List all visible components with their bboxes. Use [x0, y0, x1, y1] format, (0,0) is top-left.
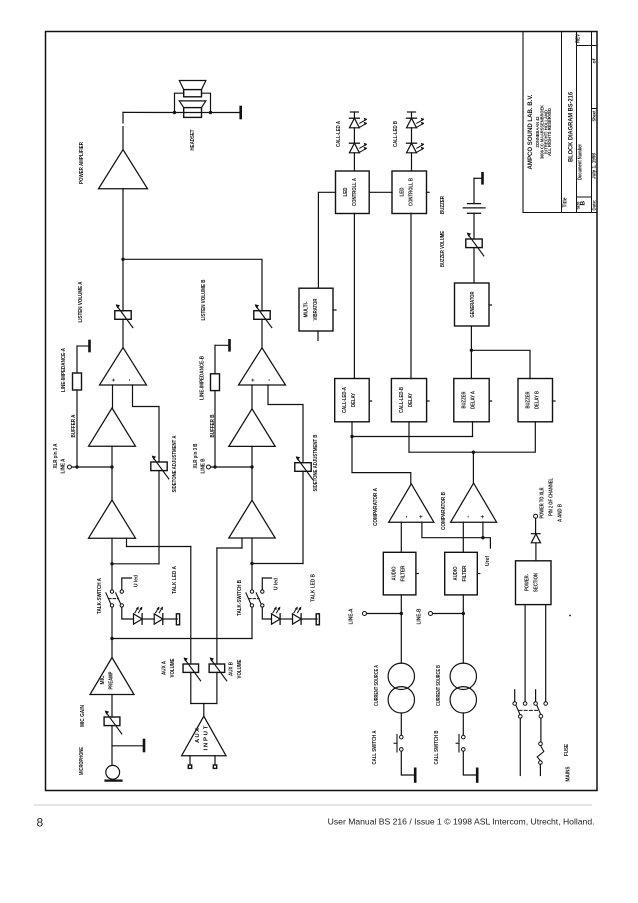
- block CALL-LED-B DELAY: [391, 379, 426, 422]
- svg-text:MIC GAIN: MIC GAIN: [80, 705, 86, 727]
- wire headset parallel bracket: [175, 93, 184, 112]
- svg-text:MICROPHONE: MICROPHONE: [79, 747, 85, 775]
- svg-text:FILTER: FILTER: [462, 565, 468, 581]
- block AUDIO FILTER A: [383, 552, 416, 595]
- wire power section to mains switch: [524, 605, 526, 702]
- wire U led stub A: [122, 578, 132, 590]
- switch MAINS double pole: [514, 690, 516, 702]
- svg-text:BUFFER A: BUFFER A: [71, 414, 77, 437]
- wire audio filter A to line A bus: [400, 595, 402, 614]
- svg-text:REV: REV: [576, 33, 582, 43]
- wire mic bus A to B: [111, 607, 113, 638]
- wire sidetone B to mic node B: [302, 471, 304, 563]
- svg-text:MULTI-: MULTI-: [304, 301, 310, 317]
- footer separator: [34, 804, 593, 806]
- wire talk amp B aux input tap: [241, 538, 243, 548]
- svg-text:BUFFER B: BUFFER B: [210, 414, 216, 437]
- block LED CONTROLL B: [392, 171, 427, 214]
- svg-text:8: 8: [37, 816, 44, 830]
- svg-text:VIBRATOR: VIBRATOR: [313, 298, 319, 320]
- ground headset return bar: [239, 107, 242, 118]
- wire diff amp A - input to sidetone A: [133, 385, 160, 462]
- svg-text:BUZZER: BUZZER: [440, 196, 446, 214]
- svg-text:-: -: [266, 379, 273, 381]
- op-amp COMPARATOR B: [451, 483, 497, 522]
- node LINE-A: [363, 612, 367, 616]
- wire diff amp B + input to buffer B: [251, 385, 253, 409]
- terminal aux input jack ring: [214, 756, 216, 765]
- svg-text:FUSE: FUSE: [564, 744, 570, 756]
- led CALL-LED B chain: [408, 111, 416, 113]
- svg-text:COMPARATOR A: COMPARATOR A: [373, 488, 379, 526]
- block CALL-LED-A DELAY: [335, 379, 370, 422]
- wire comparator A - input to audio filter A: [400, 522, 402, 552]
- svg-text:Document Number: Document Number: [578, 144, 584, 180]
- svg-text:POWER AMPLIFIER: POWER AMPLIFIER: [79, 142, 85, 184]
- svg-text:HEADSET: HEADSET: [190, 129, 196, 151]
- microphone MICROPHONE: [106, 765, 120, 779]
- led TALK LED B chain: [262, 607, 271, 619]
- svg-text:A U X: A U X: [195, 728, 201, 743]
- ground buzzer supply bar: [474, 177, 481, 179]
- wire comparator A output to delays A: [351, 422, 353, 437]
- speaker headset earpiece 2 (upper): [184, 90, 202, 97]
- switch TALK-SWITCH A: [111, 564, 113, 590]
- block MULTIVIBRATOR: [299, 288, 333, 331]
- op-amp differential amp B: [239, 348, 286, 385]
- svg-text:SIDETONE ADJUSTMENT B: SIDETONE ADJUSTMENT B: [313, 434, 319, 491]
- svg-text:DELAY A: DELAY A: [471, 391, 477, 409]
- wire phantom supply stub: [112, 745, 143, 747]
- svg-text:XLR pin 3 A: XLR pin 3 A: [53, 443, 59, 468]
- wire buzzer top: [473, 178, 475, 203]
- wire power amp output to headset (with scan gap): [122, 112, 124, 123]
- resistor LINE-IMPEDANCE-B: [211, 374, 220, 391]
- wire sidetone A to mic node A: [158, 471, 160, 564]
- svg-text:CALL SWITCH B: CALL SWITCH B: [434, 730, 440, 764]
- ground call switch B return: [463, 751, 475, 775]
- stray mark: [569, 615, 571, 617]
- svg-text:DELAY B: DELAY B: [535, 391, 541, 409]
- op-amp differential amp A: [100, 348, 147, 386]
- svg-text:TALK LED B: TALK LED B: [311, 574, 317, 602]
- svg-text:User Manual BS 216 / Issue 1 ©: User Manual BS 216 / Issue 1 © 1998 ASL …: [328, 817, 595, 827]
- svg-text:U led: U led: [274, 578, 280, 590]
- potentiometer LISTEN VOLUME B: [254, 311, 270, 320]
- wire multivibrator to LED controll A: [318, 192, 335, 288]
- svg-text:CONTROLL B: CONTROLL B: [409, 178, 415, 206]
- svg-text:+: +: [480, 515, 487, 519]
- svg-text:LISTEN VOLUME B: LISTEN VOLUME B: [201, 279, 207, 320]
- block LED CONTROLL A: [336, 171, 370, 214]
- current source CURRENT SOURCE B: [462, 614, 464, 664]
- block BUZZER DELAY B: [518, 379, 553, 422]
- wire mix bus vertical (power amp input): [122, 189, 124, 312]
- wire U led stub B: [262, 578, 271, 590]
- op-amp talk amp A: [89, 500, 136, 538]
- wire LED controll B to call-led-B delay: [410, 214, 412, 379]
- svg-text:DELAY: DELAY: [408, 393, 414, 407]
- op-amp AUX INPUT: [182, 716, 226, 756]
- svg-text:PREAMP: PREAMP: [109, 671, 115, 689]
- buzzer BUZZER piezo element: [468, 203, 481, 205]
- wire LED controll A to B: [369, 191, 392, 193]
- svg-text:AUX A: AUX A: [162, 661, 168, 675]
- svg-text:CALL-LED A: CALL-LED A: [336, 121, 342, 147]
- node LINE B / XLR pin 3 B: [207, 465, 211, 469]
- svg-text:MIC: MIC: [100, 675, 106, 684]
- wire aux A feed to talk amp A: [127, 546, 191, 548]
- diode power feed: [535, 518, 537, 534]
- svg-text:AMPCO SOUND LAB. B.V.: AMPCO SOUND LAB. B.V.: [527, 94, 534, 169]
- potentiometer MIC GAIN: [104, 717, 120, 726]
- potentiometer AUX B VOLUME: [209, 664, 225, 672]
- potentiometer LISTEN VOLUME A: [115, 311, 131, 320]
- svg-text:LED: LED: [400, 187, 406, 196]
- wire buzzer to volume pot: [473, 213, 475, 239]
- switch TALK-SWITCH B: [251, 564, 253, 590]
- svg-text:A AND B: A AND B: [558, 504, 564, 522]
- wire line impedance B to line B node: [214, 391, 216, 467]
- wire generator to buzzer delay B: [471, 350, 530, 378]
- title block borders: [522, 32, 524, 213]
- switch CALL SWITCH B: [462, 713, 464, 735]
- svg-text:U led: U led: [134, 575, 140, 587]
- op-amp BUFFER B: [229, 409, 275, 447]
- speaker headset earpiece 1 (lower): [184, 108, 202, 118]
- svg-text:LISTEN VOLUME A: LISTEN VOLUME A: [78, 281, 84, 322]
- block POWER-SECTION: [516, 561, 552, 605]
- wire line impedance A to line A node: [76, 390, 78, 467]
- svg-text:CURRENT SOURCE B: CURRENT SOURCE B: [436, 665, 442, 706]
- op-amp talk amp B: [229, 500, 275, 538]
- wire headset feed: [175, 112, 240, 114]
- svg-text:BLOCK DIAGRAM BS-216: BLOCK DIAGRAM BS-216: [568, 92, 575, 162]
- svg-text:CONTROLL A: CONTROLL A: [352, 178, 358, 206]
- svg-text:+: +: [111, 378, 118, 382]
- svg-text:AUDIO: AUDIO: [392, 567, 398, 581]
- node LINE-B: [429, 612, 433, 616]
- svg-text:AUDIO: AUDIO: [453, 567, 459, 581]
- svg-text:FILTER: FILTER: [401, 565, 407, 581]
- svg-text:TALK LED A: TALK LED A: [172, 566, 178, 594]
- wire audio filter B to line B bus: [462, 595, 464, 614]
- block AUDIO FILTER B: [445, 552, 478, 595]
- svg-text:LINE-IMPEDANCE-A: LINE-IMPEDANCE-A: [61, 348, 67, 392]
- wire LED controll A to call-led-A delay: [353, 214, 355, 379]
- current source CURRENT SOURCE A: [400, 614, 402, 664]
- wire mic gain to microphone: [111, 726, 113, 766]
- wire talk amp A aux input tap: [126, 538, 128, 546]
- node power to XLR pin 2: [534, 514, 538, 518]
- node LINE A / XLR pin 3 A: [68, 465, 72, 469]
- wire line impedance A to supply: [76, 346, 78, 373]
- wire aux pots to aux input amp: [190, 672, 192, 703]
- svg-text:LINE-IMPEDANCE-B: LINE-IMPEDANCE-B: [200, 356, 206, 400]
- svg-text:VOLUME: VOLUME: [170, 658, 176, 677]
- svg-text:of: of: [592, 58, 598, 63]
- svg-text:LED: LED: [343, 187, 349, 196]
- ground call switch A return: [401, 751, 413, 775]
- svg-text:Uref: Uref: [485, 556, 491, 566]
- wire diff amp A + input to buffer A: [112, 385, 114, 408]
- potentiometer BUZZER VOLUME: [466, 239, 482, 248]
- svg-text:CALL-LED B: CALL-LED B: [393, 121, 399, 147]
- svg-text:ALL RIGHTS RESERVED: ALL RIGHTS RESERVED: [547, 108, 552, 156]
- svg-text:LINE-B: LINE-B: [417, 608, 423, 624]
- svg-text:-: -: [126, 379, 133, 381]
- wire listen pot B to diff amp B: [261, 319, 263, 348]
- potentiometer AUX A VOLUME: [183, 664, 199, 672]
- svg-text:-: -: [403, 515, 410, 517]
- svg-text:I N P U T: I N P U T: [204, 725, 210, 751]
- svg-text:-: -: [465, 515, 472, 517]
- wire line impedance B to supply: [214, 345, 216, 374]
- svg-text:Sheet: Sheet: [592, 110, 598, 121]
- svg-text:SECTION: SECTION: [534, 573, 540, 592]
- switch CALL SWITCH A: [400, 713, 402, 735]
- svg-text:SIDETONE ADJUSTMENT A: SIDETONE ADJUSTMENT A: [172, 435, 178, 492]
- wire branch to listen volume B: [123, 259, 262, 311]
- svg-text:MAINS: MAINS: [566, 766, 572, 781]
- wire listen pot A to diff amp A: [122, 319, 124, 347]
- svg-text:LINE-A: LINE-A: [349, 608, 355, 624]
- svg-text:CALL SWITCH A: CALL SWITCH A: [372, 730, 378, 764]
- wire generator to buzzer delay A: [470, 326, 472, 379]
- svg-text:POWER-: POWER-: [525, 574, 531, 591]
- op-amp POWER AMPLIFIER: [99, 150, 148, 189]
- svg-text:BUZZER: BUZZER: [526, 391, 532, 408]
- wire comparator B output to delays B: [408, 422, 410, 452]
- wire diff amp B - input to sidetone B: [268, 385, 303, 463]
- wire comparator B + input to Uref bus: [482, 522, 484, 538]
- svg-text:PIN 2 OF CHANNEL: PIN 2 OF CHANNEL: [549, 478, 555, 516]
- svg-text:COMPARATOR B: COMPARATOR B: [441, 492, 447, 530]
- wire buzzer volume to generator: [473, 248, 475, 283]
- svg-text:DELAY: DELAY: [351, 393, 357, 407]
- svg-text:+: +: [250, 378, 257, 382]
- svg-text:Title: Title: [563, 197, 569, 207]
- svg-text:+: +: [418, 515, 425, 519]
- op-amp BUFFER A: [89, 408, 136, 446]
- svg-text:XLR pin 3 B: XLR pin 3 B: [193, 443, 199, 468]
- resistor LINE-IMPEDANCE-A: [73, 373, 82, 390]
- svg-text:TALK-SWITCH B: TALK-SWITCH B: [237, 580, 243, 616]
- terminal aux input jack tip: [189, 756, 191, 765]
- wire mic bus to preamp: [111, 639, 113, 658]
- potentiometer SIDETONE ADJUSTMENT A: [151, 462, 167, 471]
- svg-text:LINE A: LINE A: [61, 458, 67, 473]
- svg-text:CALL-LED-B: CALL-LED-B: [399, 387, 405, 413]
- fuse FUSE: [540, 718, 542, 742]
- svg-text:B: B: [580, 201, 587, 206]
- svg-text:AUX B: AUX B: [229, 662, 235, 676]
- block GENERATOR: [455, 283, 490, 326]
- block BUZZER DELAY A: [454, 379, 489, 422]
- wire mains pole 1 down: [519, 718, 521, 775]
- op-amp MIC PREAMP: [90, 658, 134, 695]
- svg-text:July 1, 1998: July 1, 1998: [592, 153, 598, 179]
- svg-text:BUZZER: BUZZER: [462, 391, 468, 408]
- wire comparator A + input to Uref bus: [422, 522, 491, 548]
- svg-text:BUZZER VOLUME: BUZZER VOLUME: [440, 231, 446, 267]
- svg-text:TALK-SWITCH A: TALK-SWITCH A: [97, 578, 103, 614]
- svg-text:CURRENT SOURCE A: CURRENT SOURCE A: [374, 665, 380, 706]
- led CALL-LED A chain: [350, 111, 358, 113]
- svg-text:Date:: Date:: [592, 199, 598, 210]
- svg-text:CALL-LED-A: CALL-LED-A: [342, 387, 348, 413]
- drawing frame: [46, 32, 598, 791]
- wire aux B feed to talk amp B: [217, 547, 242, 549]
- potentiometer SIDETONE ADJUSTMENT B: [295, 463, 311, 472]
- svg-text:GENERATOR: GENERATOR: [470, 291, 476, 317]
- svg-text:POWER TO XLR: POWER TO XLR: [540, 487, 546, 518]
- op-amp COMPARATOR A: [389, 484, 434, 522]
- led TALK LED A chain: [122, 607, 134, 619]
- wire comparator B - input to audio filter B: [462, 522, 464, 552]
- svg-text:VOLUME: VOLUME: [237, 659, 243, 678]
- svg-text:LINE B: LINE B: [201, 458, 207, 473]
